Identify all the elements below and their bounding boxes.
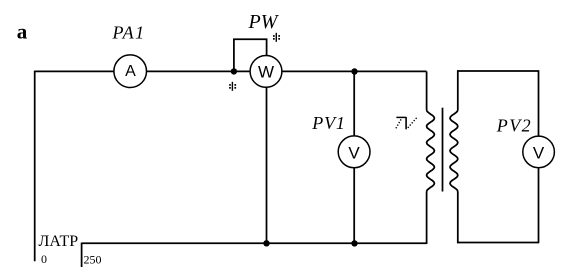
svg-text:W: W xyxy=(258,62,274,81)
wire wattmeter voltage loop xyxy=(234,39,267,71)
svg-text:PA1: PA1 xyxy=(112,23,146,43)
wattmeter PW circle xyxy=(250,56,282,88)
wire top bus xyxy=(35,70,427,72)
svg-text:250: 250 xyxy=(84,253,102,267)
transformer TV primary winding xyxy=(427,110,435,192)
svg-text:V: V xyxy=(348,144,360,163)
wire PV1 branch xyxy=(353,71,355,243)
wire secondary bottom bus xyxy=(457,242,539,244)
node junction PW current tap xyxy=(231,68,237,74)
svg-text:PV1: PV1 xyxy=(311,113,345,133)
asterisk mark at PW voltage terminal xyxy=(273,33,280,42)
svg-text:A: A xyxy=(125,63,136,80)
ammeter PA1 circle xyxy=(114,55,147,88)
wire LATR tap 250 xyxy=(81,243,83,267)
wire left vertical (source lead to LATR) xyxy=(34,71,36,262)
svg-text:ЛАТР: ЛАТР xyxy=(39,233,79,250)
wire secondary top bus xyxy=(457,70,538,72)
wire bottom bus xyxy=(82,242,427,244)
wire secondary bottom drop xyxy=(457,192,459,244)
asterisk mark at PW current terminal xyxy=(229,82,236,91)
wire secondary right vertical xyxy=(538,70,540,242)
transformer TV secondary winding xyxy=(450,110,458,192)
label TV (faint dotted style) xyxy=(396,117,418,130)
svg-text:PW: PW xyxy=(248,11,280,33)
node junction wattmeter bottom xyxy=(263,240,269,246)
svg-text:а: а xyxy=(17,20,28,44)
node junction PV1 top xyxy=(351,68,357,74)
wire primary top drop xyxy=(426,71,428,110)
transformer TV core xyxy=(442,108,444,192)
wire secondary top drop xyxy=(457,70,459,110)
node junction PV1 bottom xyxy=(351,240,357,246)
wire primary bottom drop xyxy=(426,192,428,245)
svg-text:0: 0 xyxy=(41,252,47,266)
voltmeter PV1 circle xyxy=(338,136,370,168)
wire wattmeter bottom lead xyxy=(266,71,268,243)
svg-text:V: V xyxy=(533,144,545,163)
voltmeter PV2 circle xyxy=(523,136,555,168)
svg-text:PV2: PV2 xyxy=(496,115,532,135)
